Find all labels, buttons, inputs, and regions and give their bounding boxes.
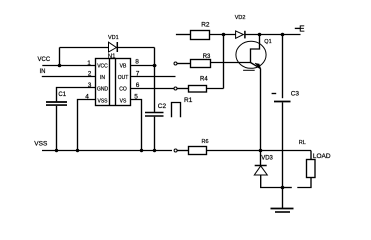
svg-text:3: 3 [88, 82, 92, 89]
resistor R4 [189, 86, 207, 93]
wire rail to R6 [177, 150, 188, 152]
wire pin8 stub [131, 65, 157, 67]
capacitor C3 top lead [282, 35, 284, 99]
resistor R6 [189, 147, 207, 155]
wire C2 to rail [154, 117, 156, 151]
wire R3 to Q1 base [211, 62, 251, 64]
node terminal circle pin8 net [174, 62, 177, 65]
ground [282, 188, 284, 209]
label C3 minus [272, 93, 277, 95]
capacitor C2 [145, 112, 164, 114]
svg-text:VD2: VD2 [235, 15, 246, 21]
wire IN to pin2 [42, 76, 96, 78]
svg-text:IN: IN [40, 69, 46, 75]
resistor R2 [191, 31, 210, 40]
resistor R1 open-bottom [172, 103, 181, 118]
svg-text:VD3: VD3 [261, 155, 273, 161]
capacitor C3 plate [274, 101, 291, 103]
svg-text:RL: RL [299, 140, 306, 146]
wire pin7 stub [131, 76, 176, 78]
wire vertical corner down to C2 [154, 48, 156, 112]
diode VD3 lead [260, 151, 262, 166]
wire R6 to RL corner [207, 150, 312, 152]
svg-text:GND: GND [97, 87, 109, 93]
junction bottom node [281, 186, 285, 190]
wire RL top from rail [310, 151, 312, 160]
wire pin3 to C1 [57, 88, 96, 102]
svg-text:IN: IN [100, 75, 105, 81]
svg-text:R1: R1 [184, 97, 193, 104]
wire VD2 to -E end [245, 34, 300, 36]
junction pin8 [153, 64, 157, 68]
junction C2-rail [153, 149, 156, 152]
junction C1-rail [55, 149, 58, 152]
svg-text:VCC: VCC [38, 57, 51, 63]
wire terminal to R4 [177, 88, 189, 90]
IC N1 box [96, 59, 131, 106]
junction R2-vertical [222, 33, 226, 37]
svg-text:VB: VB [120, 63, 127, 69]
wire bottom rail left [42, 150, 172, 152]
svg-text:R6: R6 [202, 139, 209, 145]
wire R2 left stub [176, 34, 191, 36]
svg-text:C2: C2 [158, 103, 167, 110]
wire vertical R2junction to R4 [223, 35, 225, 89]
svg-text:R4: R4 [200, 76, 208, 82]
wire R2 to VD2 [210, 34, 236, 36]
wire pin5 down to rail [131, 100, 142, 151]
wire R4 right to vertical [207, 88, 224, 90]
wire pin4 down to rail [78, 100, 96, 151]
wire top-left rail to VD1 anode [60, 47, 109, 49]
svg-text:4: 4 [85, 93, 89, 100]
svg-text:C1: C1 [58, 92, 66, 98]
wire C1 to ground rail [56, 106, 58, 151]
svg-text:VSS: VSS [97, 98, 108, 104]
svg-text:VSS: VSS [34, 140, 48, 147]
transistor Q1 [236, 41, 266, 68]
diode VD3 [255, 165, 267, 167]
svg-text:8: 8 [135, 59, 139, 66]
svg-text:C3: C3 [291, 90, 300, 97]
diode VD1 [109, 42, 117, 52]
svg-text:LOAD: LOAD [313, 153, 331, 160]
wire RL bottom segment [297, 178, 311, 188]
svg-text:Q1: Q1 [264, 39, 271, 45]
wire Q1 emitter down to rail [260, 69, 262, 151]
wire C3 bottom lead to node [282, 102, 284, 187]
diode VD2 [236, 31, 244, 38]
junction C3 top [281, 33, 285, 37]
wire VD3 bottom corner to node [261, 175, 283, 188]
svg-text:N1: N1 [108, 54, 116, 60]
svg-text:CO: CO [119, 87, 127, 93]
label -E [295, 27, 300, 29]
wire pin6 to terminal [131, 88, 175, 90]
svg-text:E: E [299, 25, 304, 34]
wire terminal to R3 [177, 63, 191, 65]
svg-text:6: 6 [136, 82, 140, 89]
junction Q1 collector [258, 33, 262, 37]
svg-text:R2: R2 [201, 22, 210, 29]
node terminal circle pin6 net [174, 87, 177, 90]
junction emitter-rail [259, 149, 263, 153]
junction pin5-rail [140, 149, 143, 152]
junction VCC [58, 64, 62, 68]
svg-text:VD1: VD1 [108, 35, 119, 41]
svg-text:R3: R3 [203, 54, 211, 60]
wire junction to gap [283, 187, 292, 189]
svg-text:OUT: OUT [118, 75, 129, 81]
svg-text:VCC: VCC [97, 63, 108, 69]
junction pin4-rail [76, 149, 79, 152]
resistor RL [307, 160, 316, 178]
node terminal circle on rail [174, 149, 177, 152]
wire vertical up from VCC junction [59, 48, 61, 66]
svg-text:1: 1 [87, 60, 91, 67]
svg-text:2: 2 [88, 71, 92, 78]
capacitor C1 [46, 101, 67, 103]
wire VD1 cathode to corner [117, 47, 154, 49]
svg-text:VS: VS [120, 98, 127, 104]
wire VCC to pin1 [42, 65, 95, 67]
resistor R3 [191, 60, 211, 68]
